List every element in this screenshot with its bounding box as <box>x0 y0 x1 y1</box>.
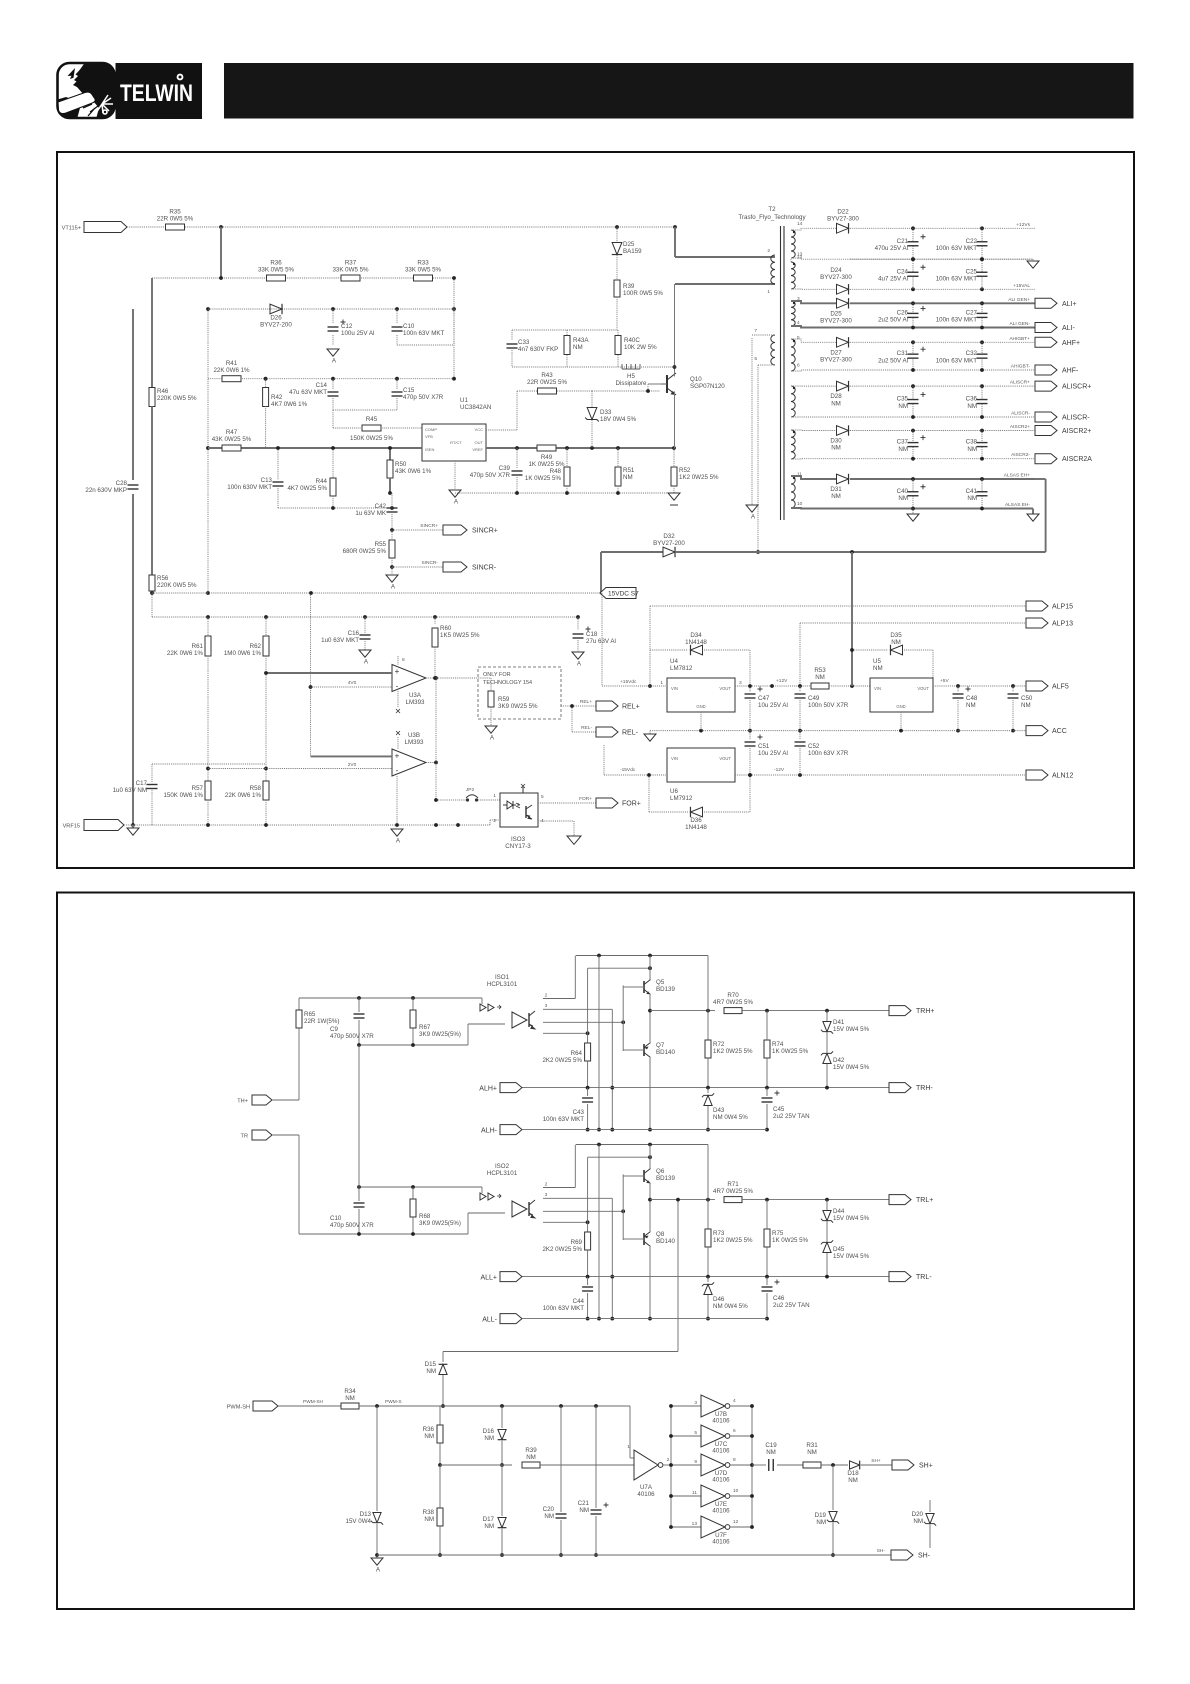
zener D41 15V <box>826 1011 828 1021</box>
svg-text:C39: C39 <box>499 465 511 472</box>
svg-text:Q5: Q5 <box>656 979 665 986</box>
svg-text:1M0 0W6 1%: 1M0 0W6 1% <box>224 650 262 657</box>
wire <box>850 288 1035 290</box>
svg-text:22K 0W6 1%: 22K 0W6 1% <box>167 650 204 657</box>
wire opto pin 3 <box>543 1210 623 1212</box>
svg-text:D27: D27 <box>830 349 842 356</box>
svg-text:C37: C37 <box>897 439 909 446</box>
svg-text:470u 25V Al: 470u 25V Al <box>875 245 908 252</box>
wire emitter return rail <box>522 1318 767 1320</box>
wire <box>132 494 134 825</box>
capacitor C18 27u <box>577 617 579 630</box>
zener D42 15V <box>823 1053 831 1063</box>
capacitor C17 <box>152 763 266 765</box>
wire <box>791 258 915 259</box>
resistor R31 <box>803 1462 821 1468</box>
svg-text:1: 1 <box>767 289 770 295</box>
svg-text:C43: C43 <box>573 1109 585 1116</box>
svg-text:+15VAL: +15VAL <box>1013 283 1030 289</box>
svg-text:U4: U4 <box>670 658 678 665</box>
wire <box>791 458 915 460</box>
wire <box>649 1247 651 1319</box>
svg-text:REL+: REL+ <box>580 699 592 705</box>
resistor R65 22R <box>298 998 300 1010</box>
svg-text:C46: C46 <box>773 1295 785 1302</box>
svg-text:Dissipatore: Dissipatore <box>616 380 648 387</box>
svg-text:R68: R68 <box>419 1213 431 1220</box>
svg-text:TECHNOLOGY 154: TECHNOLOGY 154 <box>483 680 532 686</box>
wire base tie <box>622 1174 624 1240</box>
connector ALL+ <box>500 1272 522 1282</box>
svg-text:C13: C13 <box>261 477 273 484</box>
svg-text:AHIGBT+: AHIGBT+ <box>1009 336 1030 342</box>
transformer T2 secondary winding 4 <box>791 339 795 371</box>
ground <box>1032 509 1034 515</box>
svg-text:TRL-: TRL- <box>916 1274 932 1281</box>
svg-text:C20: C20 <box>543 1506 555 1513</box>
svg-text:22R 1W(5%): 22R 1W(5%) <box>304 1018 339 1025</box>
svg-text:C10: C10 <box>330 1215 342 1222</box>
wire <box>791 339 837 342</box>
wire <box>821 1464 848 1466</box>
wire driver feed <box>677 1200 679 1352</box>
svg-text:100R 0W5 5%: 100R 0W5 5% <box>623 290 663 297</box>
svg-text:C44: C44 <box>573 1298 585 1305</box>
diode D16 <box>501 1406 503 1428</box>
svg-text:15V 0W4 5%: 15V 0W4 5% <box>833 1215 870 1222</box>
resistor R36B <box>439 1406 441 1425</box>
transistor Q8 BD140 <box>643 1233 645 1245</box>
capacitor C31 2u2 50V Al <box>912 342 914 353</box>
ground <box>746 505 758 512</box>
svg-text:SH-: SH- <box>918 1553 931 1560</box>
resistor R68 <box>412 1187 414 1199</box>
svg-text:NM: NM <box>898 446 908 453</box>
svg-text:LM393: LM393 <box>405 739 424 746</box>
wire -15Vdc input <box>604 774 667 776</box>
svg-text:+15Vdc: +15Vdc <box>620 679 637 685</box>
svg-text:2: 2 <box>545 993 548 999</box>
svg-text:R52: R52 <box>679 467 691 474</box>
resistor R70 4R7 <box>724 1008 742 1014</box>
svg-text:C50: C50 <box>1021 695 1033 702</box>
svg-text:10: 10 <box>733 1488 739 1494</box>
resistor R53 <box>811 683 829 689</box>
svg-text:NM: NM <box>526 1454 536 1461</box>
resistor R56 <box>149 575 155 591</box>
svg-text:3: 3 <box>545 1003 548 1009</box>
svg-text:C12: C12 <box>341 323 353 330</box>
svg-text:H5: H5 <box>627 373 635 380</box>
svg-text:NM: NM <box>873 665 883 672</box>
svg-text:C14: C14 <box>316 382 328 389</box>
svg-text:LM7912: LM7912 <box>670 795 693 802</box>
zener D43 <box>707 1088 709 1093</box>
svg-text:D18: D18 <box>847 1470 859 1477</box>
wire <box>598 1145 600 1319</box>
wire emitter return rail <box>522 1129 767 1131</box>
svg-text:18V 0W4 5%: 18V 0W4 5% <box>600 416 637 423</box>
svg-text:1K2 0W25 5%: 1K2 0W25 5% <box>713 1048 753 1055</box>
svg-text:VOUT: VOUT <box>719 756 731 761</box>
ground <box>649 731 651 734</box>
connector ALI- <box>1035 323 1057 333</box>
resistor R47 <box>222 445 241 451</box>
svg-text:SINCR+: SINCR+ <box>472 528 498 535</box>
svg-text:R64: R64 <box>571 1050 583 1057</box>
svg-text:AISCR2+: AISCR2+ <box>1062 428 1091 435</box>
wire <box>151 591 153 593</box>
connector SH- <box>891 1550 913 1560</box>
diode D15 <box>442 1352 444 1363</box>
svg-text:D43: D43 <box>713 1107 725 1114</box>
wire collector rail <box>576 1144 708 1146</box>
transformer T2 secondary winding 1 <box>791 230 795 258</box>
svg-text:SH+: SH+ <box>919 1463 933 1470</box>
svg-text:ALI+: ALI+ <box>1062 301 1077 308</box>
diode D25 BA159 <box>615 225 619 229</box>
resistor R36 <box>267 275 286 281</box>
jumper JP2 <box>436 799 466 801</box>
svg-text:NM: NM <box>891 639 901 646</box>
svg-text:R36: R36 <box>270 260 282 267</box>
svg-text:10K 2W 5%: 10K 2W 5% <box>624 344 657 351</box>
svg-text:T2: T2 <box>768 206 776 213</box>
svg-text:470p 500V X7R: 470p 500V X7R <box>330 1222 374 1229</box>
svg-text:5: 5 <box>797 335 800 341</box>
wire <box>791 385 837 387</box>
svg-text:R50: R50 <box>395 461 407 468</box>
wire ALP13 <box>800 622 1026 624</box>
svg-text:TR: TR <box>241 1134 248 1140</box>
svg-text:C21: C21 <box>897 238 909 245</box>
wire ground bus <box>650 730 1026 732</box>
svg-text:BYV27-300: BYV27-300 <box>820 274 852 281</box>
wire CS bus <box>208 447 422 449</box>
wire REL+ <box>561 705 596 707</box>
svg-text:100n 630V MKT: 100n 630V MKT <box>227 484 272 491</box>
svg-text:3K9 0W25(5%): 3K9 0W25(5%) <box>419 1220 461 1227</box>
svg-text:ALISCR-: ALISCR- <box>1011 411 1030 417</box>
ground <box>912 509 914 515</box>
svg-text:R40C: R40C <box>624 337 640 344</box>
svg-text:1: 1 <box>627 1444 630 1450</box>
svg-text:REL-: REL- <box>622 730 639 737</box>
svg-text:3K9 0W25 5%: 3K9 0W25 5% <box>498 703 538 710</box>
svg-text:33K 0W5 5%: 33K 0W5 5% <box>332 267 369 274</box>
svg-text:220K 0W5 5%: 220K 0W5 5% <box>157 395 197 402</box>
svg-text:D20: D20 <box>912 1511 924 1518</box>
svg-text:ISEN: ISEN <box>425 447 434 452</box>
svg-text:JP2: JP2 <box>466 787 475 793</box>
capacitor C27 100n 63V MKT <box>981 303 983 313</box>
svg-text:VOUT: VOUT <box>719 686 731 691</box>
svg-text:SGP07N120: SGP07N120 <box>690 383 725 390</box>
svg-text:C49: C49 <box>808 695 820 702</box>
zener D13 <box>376 1406 378 1511</box>
wire <box>791 370 915 371</box>
capacitor C48 <box>957 686 959 692</box>
wire -12V output <box>735 774 1026 776</box>
transistor Q7 BD140 <box>643 1044 645 1056</box>
resistor R33 <box>414 275 433 281</box>
svg-text:15VDC S7: 15VDC S7 <box>608 591 639 598</box>
ground <box>572 652 584 659</box>
wire <box>478 799 500 801</box>
svg-text:NM: NM <box>831 493 841 500</box>
svg-text:NM 0W4 5%: NM 0W4 5% <box>713 1114 748 1121</box>
wire <box>455 492 674 494</box>
wire <box>850 478 1035 480</box>
connector TRL+ <box>889 1195 911 1205</box>
connector SINCR- <box>443 562 467 572</box>
svg-text:150K 0W25 5%: 150K 0W25 5% <box>350 435 393 442</box>
wire vcc-aux <box>486 429 517 431</box>
connector TR <box>252 1130 272 1140</box>
svg-text:R71: R71 <box>727 1181 739 1188</box>
svg-text:2V0: 2V0 <box>348 762 357 768</box>
transformer T2 aux winding <box>771 335 775 365</box>
wire <box>151 406 153 575</box>
svg-text:1K 0W25 5%: 1K 0W25 5% <box>772 1237 809 1244</box>
svg-text:22R 0W25 5%: 22R 0W25 5% <box>527 379 567 386</box>
svg-text:PWM-S: PWM-S <box>385 1399 402 1405</box>
wire <box>601 593 603 686</box>
svg-text:R35: R35 <box>169 209 181 216</box>
wire <box>278 1405 341 1407</box>
svg-text:R74: R74 <box>772 1041 784 1048</box>
connector TRH+ <box>889 1006 911 1016</box>
svg-text:AHF-: AHF- <box>1062 368 1079 375</box>
zener D19 <box>832 1465 834 1510</box>
svg-text:4R7 0W25 5%: 4R7 0W25 5% <box>713 1188 753 1195</box>
svg-text:ALH+: ALH+ <box>479 1086 497 1093</box>
svg-text:NM: NM <box>831 400 841 407</box>
op-amp power stubs <box>397 656 399 665</box>
svg-text:2u2 50V Al: 2u2 50V Al <box>878 357 908 364</box>
svg-text:U1: U1 <box>460 397 468 404</box>
capacitor C35 NM <box>912 386 914 399</box>
svg-text:R39: R39 <box>623 283 635 290</box>
svg-text:NM: NM <box>484 1435 494 1442</box>
wire <box>333 409 397 411</box>
svg-text:C25: C25 <box>966 268 978 275</box>
svg-text:R48: R48 <box>550 468 562 475</box>
capacitor C15 <box>396 379 398 390</box>
svg-text:4: 4 <box>733 1398 736 1404</box>
svg-text:VCC: VCC <box>475 427 484 432</box>
svg-text:27u 63V Al: 27u 63V Al <box>586 638 616 645</box>
svg-text:8: 8 <box>733 1457 736 1463</box>
wire 15V rail <box>152 592 600 594</box>
svg-text:2u2 50V Al: 2u2 50V Al <box>878 317 908 324</box>
svg-text:-: - <box>396 682 399 691</box>
diode D36 1N4148 dashed bypass <box>649 811 688 813</box>
connector ALP13 <box>1026 618 1048 628</box>
wire opto pin 1 <box>543 1187 575 1189</box>
connector AISCR2+ <box>1035 426 1057 436</box>
svg-text:GND: GND <box>896 704 905 709</box>
inverter U7D <box>671 1464 701 1466</box>
svg-text:-12V: -12V <box>774 767 785 773</box>
wire REL- <box>571 706 573 732</box>
svg-text:+: + <box>395 667 400 676</box>
svg-text:R44: R44 <box>316 478 328 485</box>
wire <box>791 288 837 290</box>
svg-text:D33: D33 <box>600 409 612 416</box>
svg-text:D19: D19 <box>815 1512 827 1519</box>
svg-text:NM: NM <box>573 344 583 351</box>
capacitor C10 <box>358 1187 360 1201</box>
svg-text:BA159: BA159 <box>623 248 642 255</box>
wire output <box>650 1010 715 1012</box>
svg-text:C38: C38 <box>966 439 978 446</box>
wire <box>278 507 392 509</box>
inverter U7F <box>671 1526 701 1528</box>
wire vcc column <box>453 278 455 309</box>
svg-text:NM: NM <box>424 1433 434 1440</box>
optocoupler ISO3 CNY17-3 <box>500 793 538 827</box>
svg-text:7: 7 <box>754 328 757 334</box>
op-amp U3B LM393 <box>392 749 426 776</box>
svg-text:R39: R39 <box>525 1447 537 1454</box>
svg-text:1K5 0W25 5%: 1K5 0W25 5% <box>440 632 480 639</box>
svg-text:100n 63V MKT: 100n 63V MKT <box>936 245 977 252</box>
wire emitter node <box>649 995 651 1042</box>
wire emitter node <box>649 1184 651 1231</box>
svg-text:C36: C36 <box>966 396 978 403</box>
svg-text:40106: 40106 <box>712 1539 730 1546</box>
svg-text:R46: R46 <box>157 388 169 395</box>
svg-text:2: 2 <box>545 1182 548 1188</box>
wire Q10 collector <box>674 284 676 377</box>
svg-text:R47: R47 <box>226 429 238 436</box>
capacitor C33 <box>511 330 513 340</box>
regulator U5 <box>870 678 933 712</box>
connector REL+ <box>596 701 618 711</box>
capacitor C14 <box>332 379 334 390</box>
svg-text:ALI-: ALI- <box>1062 325 1076 332</box>
svg-text:VIN: VIN <box>671 686 678 691</box>
wire <box>391 567 393 575</box>
transformer T2 secondary winding 6 <box>791 430 795 459</box>
svg-text:22K 0W6 1%: 22K 0W6 1% <box>213 367 250 374</box>
svg-text:150K 0W6 1%: 150K 0W6 1% <box>163 792 203 799</box>
capacitor C38 NM <box>981 431 983 443</box>
svg-text:R55: R55 <box>375 541 387 548</box>
svg-text:NM: NM <box>1021 702 1031 709</box>
resistor R64 2K2 <box>587 1033 589 1043</box>
svg-text:1u0 63V MKT: 1u0 63V MKT <box>321 637 359 644</box>
svg-text:BYV27-300: BYV27-300 <box>827 216 859 223</box>
svg-text:10: 10 <box>797 501 803 507</box>
svg-text:R42: R42 <box>271 394 283 401</box>
wire <box>850 385 1035 387</box>
svg-text:2: 2 <box>493 818 496 824</box>
inverter U7C <box>671 1435 701 1437</box>
wire aux winding top <box>752 334 775 336</box>
svg-text:4V0: 4V0 <box>348 680 357 686</box>
ground <box>449 490 461 497</box>
svg-text:NM: NM <box>484 1523 494 1530</box>
svg-text:R33: R33 <box>417 260 429 267</box>
svg-text:C22: C22 <box>966 238 978 245</box>
svg-text:TRH+: TRH+ <box>916 1008 934 1015</box>
wire +12V output <box>735 685 810 687</box>
svg-text:ALSAS EH-: ALSAS EH- <box>1005 502 1030 508</box>
connector VRF15 <box>84 820 124 831</box>
resistor R73 <box>707 1145 709 1230</box>
svg-text:3K9 0W25(5%): 3K9 0W25(5%) <box>419 1031 461 1038</box>
svg-text:NM: NM <box>816 1519 826 1526</box>
inverter U7E <box>671 1495 701 1497</box>
wire U1 ground <box>454 461 456 490</box>
svg-text:TRH-: TRH- <box>916 1085 933 1092</box>
ground <box>567 836 581 844</box>
svg-text:C18: C18 <box>586 631 598 638</box>
svg-text:BD140: BD140 <box>656 1049 675 1056</box>
wire <box>742 1010 889 1012</box>
svg-text:ALSAS EH+: ALSAS EH+ <box>1004 473 1030 479</box>
svg-text:R49: R49 <box>541 454 553 461</box>
svg-text:C41: C41 <box>966 488 978 495</box>
op-amp U3A LM393 <box>392 665 426 692</box>
wire Q10 base <box>592 390 660 392</box>
capacitor C20 <box>560 1406 562 1512</box>
svg-text:40106: 40106 <box>637 1491 655 1498</box>
svg-text:R31: R31 <box>806 1442 818 1449</box>
wire SINCR+ <box>392 529 443 531</box>
wire lower rail <box>522 1087 889 1089</box>
wire opto pin 4 <box>543 1221 588 1223</box>
wire ALP15 <box>650 605 1026 607</box>
wire base tie <box>622 985 624 1051</box>
svg-text:22n 630V MKP: 22n 630V MKP <box>85 487 127 494</box>
capacitor C45 2u2 TAN <box>766 1088 768 1096</box>
ground <box>668 493 680 500</box>
connector SH+ <box>892 1460 914 1470</box>
svg-text:RT/CT: RT/CT <box>450 440 462 445</box>
svg-text:BYV27-200: BYV27-200 <box>653 540 685 547</box>
wire opto pin 4 <box>543 1032 588 1034</box>
svg-text:+: + <box>395 752 400 761</box>
svg-text:NM: NM <box>623 474 633 481</box>
wire opto pin 1 <box>543 998 575 1000</box>
connector ALH+ <box>500 1083 522 1093</box>
svg-text:C9: C9 <box>330 1026 338 1033</box>
capacitor C47 <box>749 686 751 692</box>
svg-text:2u2 25V TAN: 2u2 25V TAN <box>773 1113 810 1120</box>
wire <box>649 1058 651 1130</box>
resistor R45 <box>362 425 381 431</box>
svg-text:VOUT: VOUT <box>917 686 929 691</box>
svg-text:ISO3: ISO3 <box>511 836 526 843</box>
wire <box>299 1233 468 1235</box>
svg-text:R56: R56 <box>157 575 169 582</box>
svg-text:D25: D25 <box>830 310 842 317</box>
resistor R37 <box>341 275 360 281</box>
wire <box>600 552 602 593</box>
transformer T2 secondary winding 3 <box>791 301 795 326</box>
svg-text:ALN12: ALN12 <box>1052 773 1074 780</box>
svg-text:4u7 25V Al: 4u7 25V Al <box>878 275 908 282</box>
svg-text:R61: R61 <box>192 643 204 650</box>
svg-text:680R 0W25 5%: 680R 0W25 5% <box>343 548 387 555</box>
diode D34 1N4148 dashed bypass <box>649 649 651 651</box>
svg-text:ALISCR-: ALISCR- <box>1062 415 1090 422</box>
wire SINCR- <box>392 566 443 568</box>
svg-text:R45: R45 <box>366 416 378 423</box>
